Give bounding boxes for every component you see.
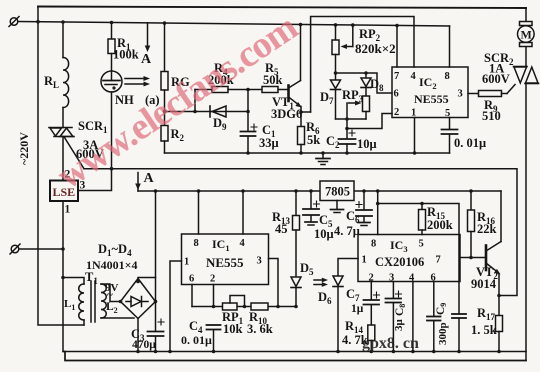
svg-text:D8: D8: [370, 77, 384, 93]
resistor R2: [161, 126, 168, 154]
wire: outer frame right: [525, 84, 527, 361]
svg-text:D5: D5: [300, 261, 314, 277]
IC2 pin labels and name: [394, 71, 463, 119]
diode D5: [291, 277, 301, 307]
svg-text:820k×2: 820k×2: [355, 41, 396, 56]
svg-text:D9: D9: [213, 116, 227, 132]
arrows: optical coupling NH to RG: [125, 76, 150, 87]
wire: IC1 pin4 to rail: [242, 191, 244, 234]
svg-text:D7: D7: [320, 90, 334, 106]
ground symbol on sensor rail: [316, 153, 330, 165]
IC1 pin labels and name: [184, 237, 262, 285]
svg-text:NH: NH: [115, 93, 134, 107]
svg-text:1: 1: [65, 204, 71, 216]
svg-text:NE555: NE555: [414, 92, 449, 106]
wire: IC3 pin1 input: [338, 259, 358, 276]
motor M: [518, 8, 535, 47]
svg-text:C6: C6: [346, 209, 360, 225]
svg-text:L1: L1: [64, 298, 75, 312]
terminal: mains input top: [9, 17, 19, 27]
IC3 CX20106 box: [358, 235, 460, 282]
svg-text:A: A: [141, 52, 152, 67]
svg-text:7805: 7805: [325, 185, 350, 199]
wire: IC2 pin1 to ground rail: [414, 118, 416, 154]
resistor R13: [293, 191, 300, 277]
photoresistor RG: [161, 23, 168, 125]
bridge rectifier D1-D4: [119, 278, 158, 352]
svg-text:50k: 50k: [263, 73, 283, 87]
svg-text:1: 1: [184, 257, 189, 268]
IC2 NE555 box: [392, 67, 468, 118]
svg-text:3DG6: 3DG6: [271, 107, 302, 121]
resistor R10: [251, 303, 268, 310]
wire: IC3 pin4 ground: [412, 282, 414, 352]
wire: IC3 pin8 to rail: [377, 191, 379, 235]
capacitor C4: [207, 325, 221, 352]
svg-text:1: 1: [362, 255, 367, 266]
svg-text:C9: C9: [435, 303, 448, 315]
svg-text:3μ: 3μ: [393, 319, 405, 332]
svg-text:0. 01μ: 0. 01μ: [181, 333, 212, 347]
IC3 pin labels and name: [362, 238, 441, 284]
photodiode D6: [333, 276, 343, 352]
svg-text:C7: C7: [346, 287, 360, 303]
wire: bottom ground rail: [63, 351, 526, 353]
terminal: mains input bottom: [10, 244, 63, 254]
svg-text:CX20106: CX20106: [375, 255, 424, 269]
svg-text:1N4001×4: 1N4001×4: [86, 258, 138, 272]
svg-text:10k: 10k: [223, 322, 243, 336]
svg-text:T1: T1: [85, 270, 98, 286]
regulator 7805: [320, 181, 354, 209]
wire: IC1 pin3 output loop: [269, 259, 279, 307]
wire: SCR1 gate to trigger line: [65, 138, 85, 169]
capacitor C5: [303, 191, 320, 222]
diode D8: [361, 73, 371, 96]
potentiometer RP2: [332, 25, 353, 73]
trigger wire from SCR1 gate to VT2 emitter: [84, 169, 517, 296]
node A (lower arrow): [135, 173, 141, 192]
transformer T1 core: [91, 281, 95, 322]
svg-text:3: 3: [257, 256, 262, 267]
wire: RG/R2 node to D9: [165, 111, 249, 113]
wire: IC2 pin4 to VT1 emitter: [311, 17, 414, 113]
svg-text:300p: 300p: [437, 322, 449, 345]
svg-text:3. 6k: 3. 6k: [247, 322, 273, 336]
transformer T1 secondary L2: [101, 284, 134, 318]
svg-text:100k: 100k: [113, 48, 139, 62]
svg-text:C2: C2: [326, 134, 340, 150]
resistor R6: [298, 112, 305, 153]
wire: IC1 pin6: [191, 285, 193, 307]
wire: outer frame top: [38, 7, 526, 9]
capacitor C8: [386, 282, 402, 352]
neon lamp NH: [101, 71, 122, 92]
wire: V+ branch over IC3: [378, 204, 459, 314]
triac SCR1: [49, 128, 74, 181]
arrows: IR input to D6: [314, 278, 328, 287]
resistor R9: [468, 85, 515, 97]
svg-text:8: 8: [445, 71, 450, 82]
svg-text:RP3: RP3: [342, 88, 364, 104]
resistor R16: [468, 191, 475, 258]
resistor R14: [368, 325, 375, 352]
svg-text:510: 510: [482, 109, 501, 123]
svg-text:22k: 22k: [477, 222, 497, 236]
diode D7: [331, 73, 341, 119]
wire: D7/D8 top line to IC2 pin6: [336, 73, 393, 93]
svg-text:1μ: 1μ: [351, 303, 364, 315]
capacitor C7: [364, 282, 380, 326]
svg-text:7: 7: [436, 255, 441, 266]
wire: IC3 pin7 output: [460, 257, 486, 259]
wire: live rail from terminal to IC2 pin8: [18, 22, 450, 27]
wire: IC1 pin8 to rail: [198, 191, 200, 234]
transistor VT1: [289, 25, 311, 114]
svg-text:45: 45: [275, 222, 288, 236]
potentiometer RP1: [223, 296, 245, 311]
svg-text:1. 5k: 1. 5k: [471, 323, 497, 337]
svg-text:8: 8: [194, 238, 199, 249]
svg-text:L2: L2: [106, 301, 118, 315]
capacitor (decoupling, unlabeled): [452, 314, 466, 352]
junction dots on live rail: [36, 20, 399, 27]
potentiometer RP3: [349, 96, 370, 119]
wire: IC2 pin8 to rail: [449, 26, 451, 67]
capacitor C1: [241, 90, 258, 154]
svg-text:~: ~: [107, 289, 113, 301]
wire: to IC2 pin2: [347, 114, 392, 129]
resistor R4: [195, 87, 248, 112]
resistor R17: [496, 296, 503, 352]
svg-text:2: 2: [210, 274, 215, 285]
svg-text:NE555: NE555: [206, 255, 244, 270]
svg-text:RL: RL: [44, 74, 59, 90]
svg-text:M: M: [521, 28, 532, 42]
load RL (inductor): [63, 22, 69, 128]
svg-text:D6: D6: [318, 290, 332, 306]
svg-text:D1~D4: D1~D4: [98, 242, 132, 258]
svg-text:3: 3: [389, 273, 394, 284]
transformer T1 primary L1: [63, 278, 84, 326]
svg-text:2: 2: [394, 107, 399, 118]
capacitor C9 300p: [427, 282, 441, 352]
svg-text:5k: 5k: [307, 133, 320, 147]
ground for C5: [305, 222, 317, 225]
wire: timing feedback line: [192, 306, 296, 308]
ground for 7805: [331, 210, 344, 213]
diode D9: [210, 106, 226, 117]
capacitor C3: [148, 191, 165, 352]
svg-text:4: 4: [409, 273, 415, 284]
wire: IC1 pin2: [213, 285, 215, 307]
wire: IC1 pin1 ground: [170, 261, 182, 352]
capacitor C6: [356, 191, 372, 222]
wire: IC2 pin7 to rail: [396, 26, 398, 68]
svg-text:10μ: 10μ: [314, 227, 334, 241]
watermark www.elecfans.com (main): [50, 6, 305, 197]
svg-text:0. 01μ: 0. 01μ: [454, 136, 486, 150]
svg-text:C8: C8: [394, 304, 407, 316]
transistor VT2: [486, 191, 501, 297]
node A (upper arrow): [145, 23, 151, 52]
ground for C6: [358, 223, 370, 226]
svg-text:470μ: 470μ: [132, 339, 156, 351]
svg-text:5: 5: [419, 239, 424, 250]
svg-text:R17: R17: [477, 306, 496, 322]
svg-text:8: 8: [371, 239, 376, 250]
svg-text:7: 7: [394, 71, 399, 82]
svg-text:4: 4: [411, 71, 417, 82]
wire: outer frame left: [38, 7, 84, 326]
IC1 NE555 box: [182, 234, 269, 285]
svg-text:10μ: 10μ: [357, 137, 377, 151]
wire: RP3 wiper / C2 branch: [346, 103, 348, 139]
wire: low-voltage supply rail: [138, 190, 501, 192]
svg-text:4. 7μ: 4. 7μ: [334, 224, 360, 238]
junction dot NH line crossing trigger wire: [110, 167, 114, 171]
svg-text:3: 3: [458, 89, 463, 100]
resistor R1: [108, 23, 115, 72]
junction dots on supply rail: [154, 189, 473, 193]
svg-text:gpx8. cn: gpx8. cn: [362, 335, 419, 352]
svg-text:1: 1: [411, 108, 416, 119]
svg-text:200k: 200k: [427, 218, 453, 232]
wire: sensor section ground rail: [165, 152, 450, 154]
switch LSE: [50, 181, 78, 202]
resistor R5: [246, 87, 288, 93]
wire: NH bottom to LSE pin3 line: [78, 92, 112, 191]
svg-text:A: A: [144, 171, 155, 186]
capacitor 0.01u on IC2 pin5: [442, 118, 458, 154]
junction dots on ground rail: [136, 350, 501, 354]
svg-text:5: 5: [445, 108, 450, 119]
resistor R15: [419, 204, 426, 235]
capacitor C2: [339, 130, 356, 153]
triac SCR2: [514, 47, 539, 84]
svg-text:33μ: 33μ: [259, 136, 279, 150]
svg-text:2: 2: [369, 273, 374, 284]
wire: outer frame bottom: [65, 352, 526, 361]
svg-text:6: 6: [431, 273, 436, 284]
svg-text:4: 4: [240, 238, 246, 249]
svg-text:6: 6: [189, 274, 194, 285]
wire: D7 bottom line: [336, 118, 367, 120]
junction dots on left vertical: [61, 247, 65, 279]
svg-text:600V: 600V: [482, 72, 510, 86]
svg-text:~220V: ~220V: [17, 132, 31, 165]
svg-text:9014: 9014: [471, 277, 497, 291]
wire: LSE pin1 down to terminal/transformer: [62, 201, 64, 352]
svg-text:6: 6: [394, 89, 399, 100]
